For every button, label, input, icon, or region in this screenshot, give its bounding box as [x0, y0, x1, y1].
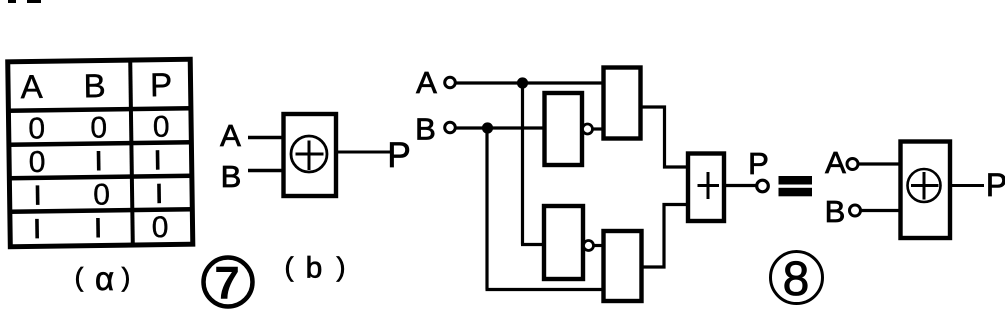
svg-text:8: 8 [783, 253, 810, 306]
svg-text:0: 0 [153, 111, 170, 144]
svg-text:7: 7 [214, 257, 240, 309]
svg-text:B: B [221, 159, 242, 194]
svg-text:B: B [83, 67, 106, 104]
svg-text:0: 0 [151, 211, 168, 244]
svg-text:0: 0 [29, 146, 46, 179]
svg-text:0: 0 [90, 111, 107, 144]
svg-text:): ) [122, 262, 131, 292]
svg-text:P: P [748, 146, 769, 181]
svg-text:A: A [220, 118, 241, 153]
svg-text:A: A [416, 65, 437, 100]
svg-text:(: ( [75, 262, 84, 292]
svg-text:P: P [387, 136, 410, 175]
svg-text:B: B [415, 112, 436, 147]
svg-text:A: A [825, 145, 846, 180]
svg-text:(: ( [285, 252, 294, 282]
svg-text:): ) [337, 252, 346, 282]
svg-text:P: P [150, 66, 173, 103]
svg-text:P: P [986, 167, 1005, 203]
svg-text:A: A [20, 68, 43, 105]
svg-text:0: 0 [93, 178, 110, 211]
svg-text:0: 0 [28, 112, 45, 145]
svg-text:B: B [825, 194, 846, 229]
svg-text:α: α [95, 260, 114, 297]
svg-text:b: b [306, 252, 323, 285]
